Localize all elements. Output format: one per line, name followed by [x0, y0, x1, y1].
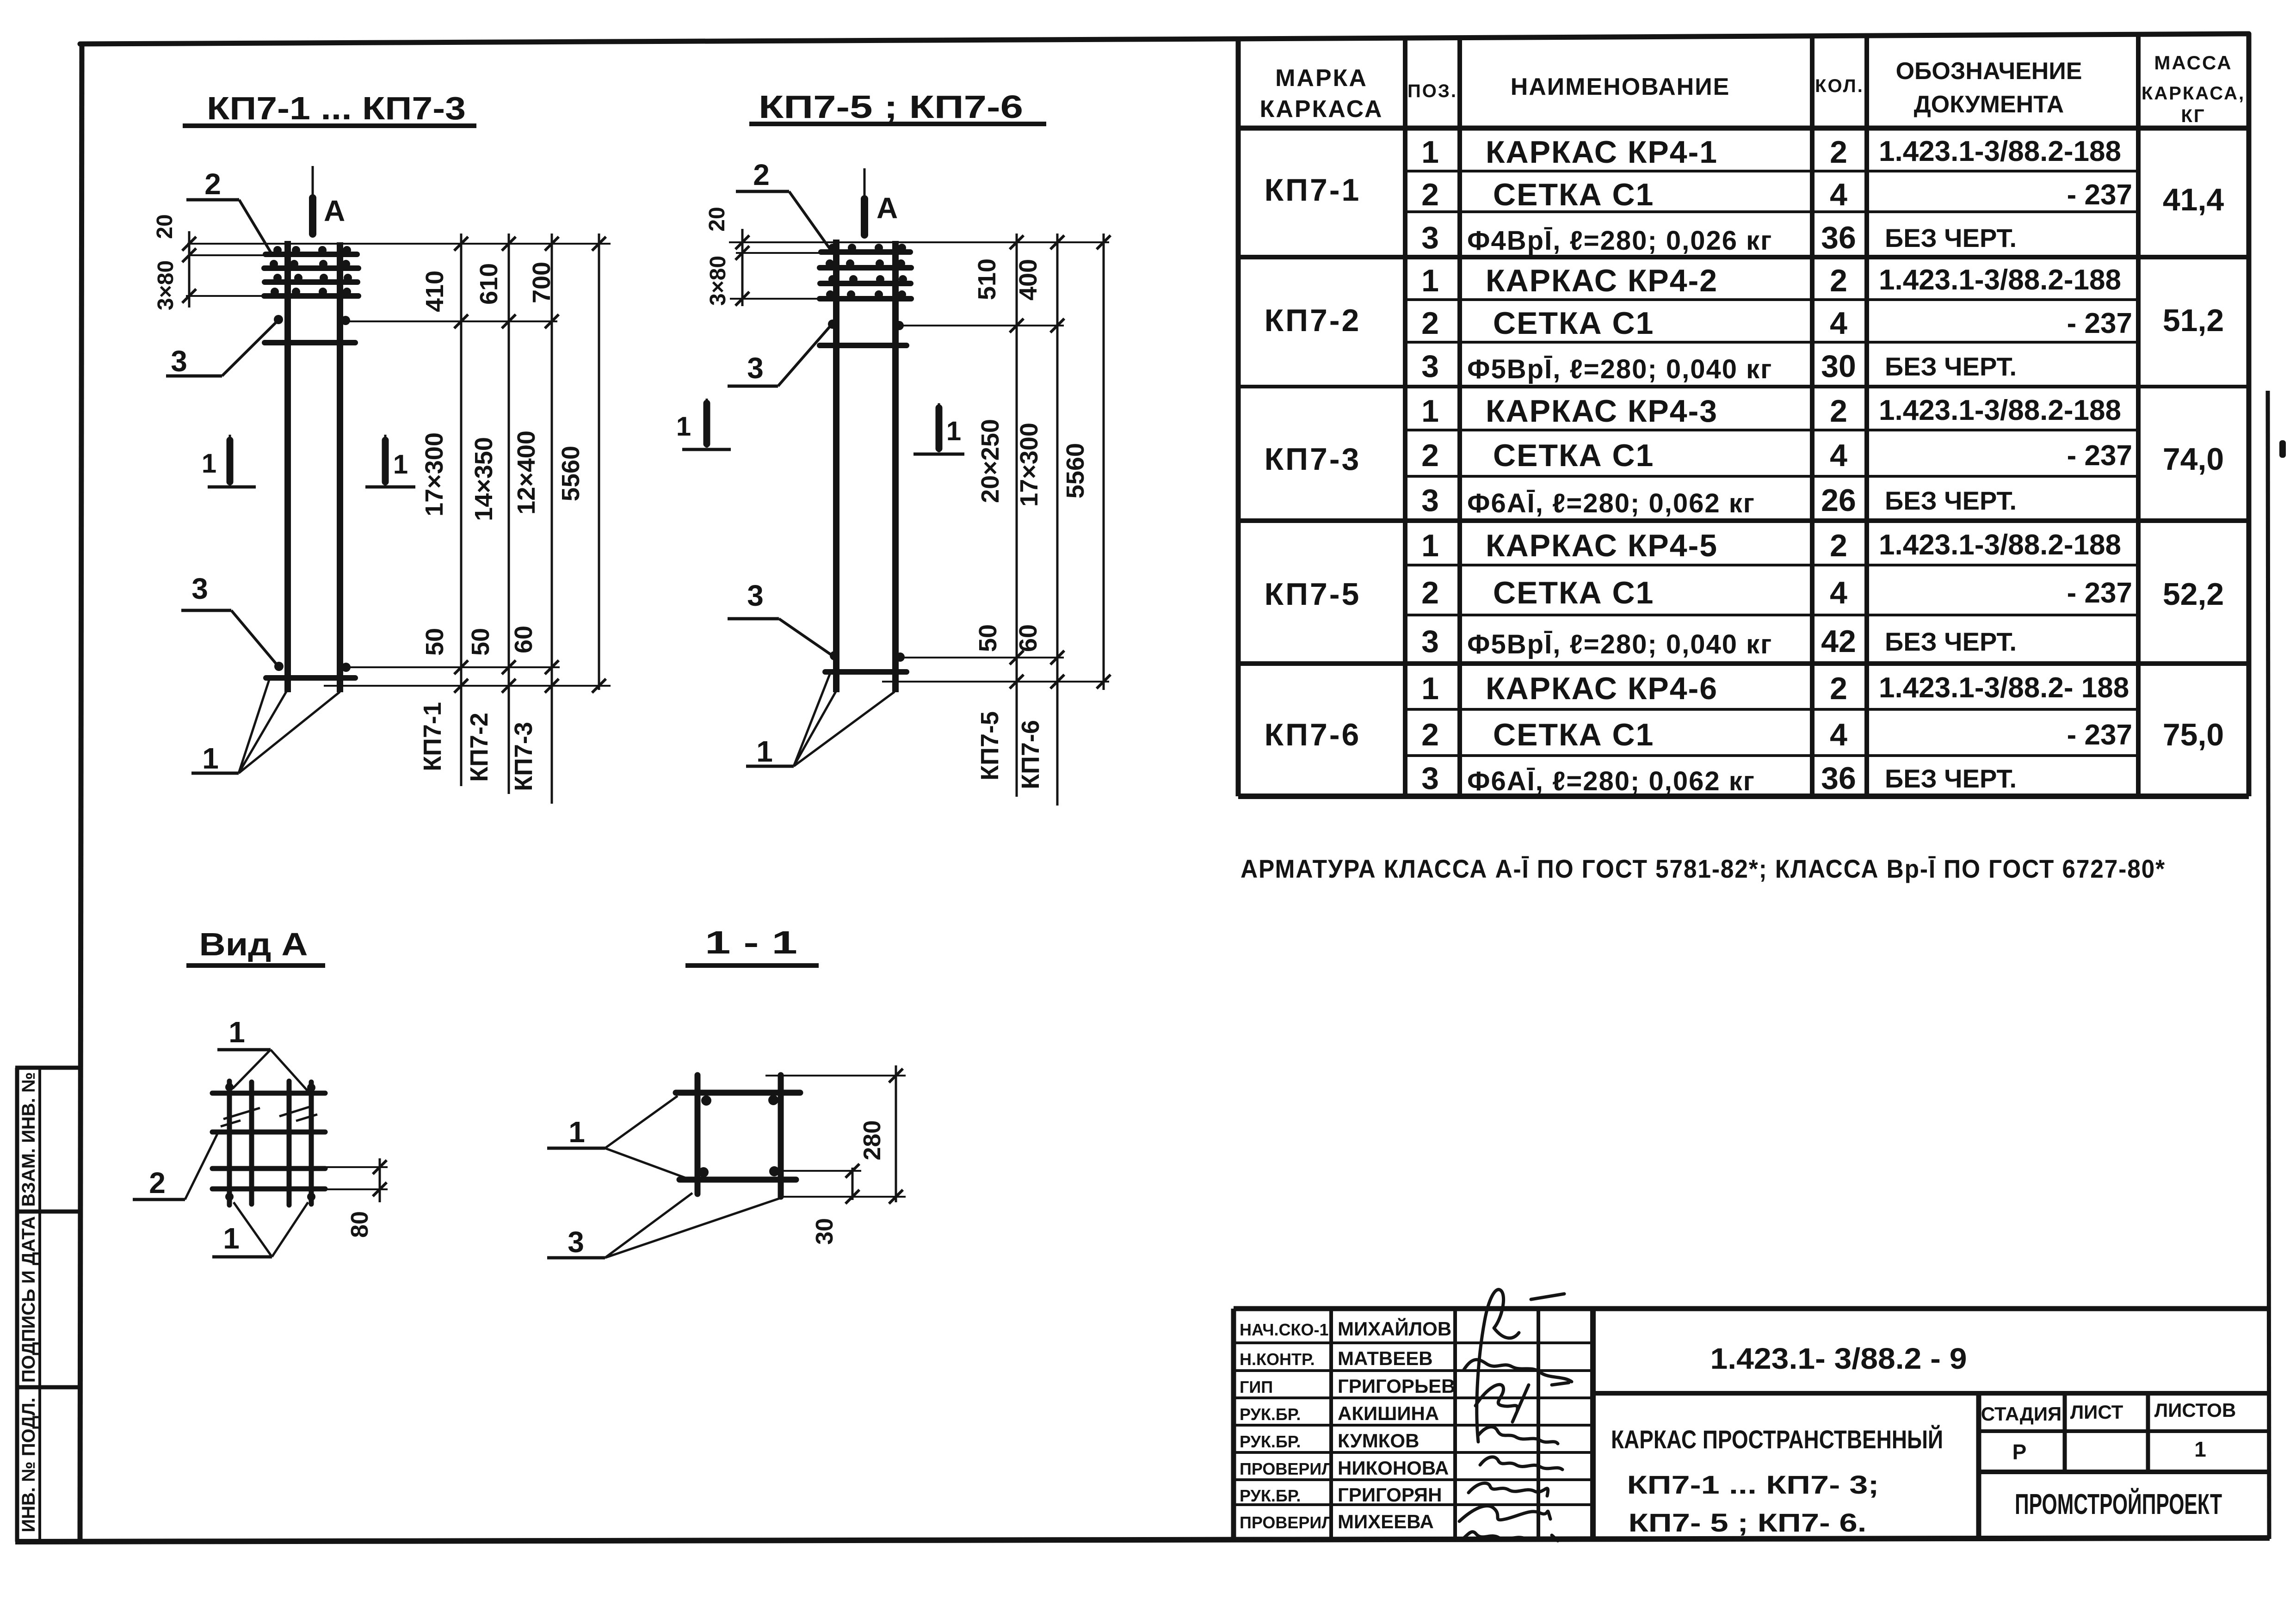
- svg-text:ДОКУМЕНТА: ДОКУМЕНТА: [1914, 91, 2064, 118]
- svg-text:50: 50: [467, 628, 494, 656]
- svg-text:51,2: 51,2: [2163, 303, 2224, 338]
- svg-text:14×350: 14×350: [470, 437, 498, 521]
- svg-text:410: 410: [421, 271, 449, 312]
- svg-text:2: 2: [204, 167, 221, 201]
- svg-text:ИНВ. № ПОДЛ.: ИНВ. № ПОДЛ.: [19, 1397, 39, 1532]
- svg-text:20: 20: [153, 214, 177, 239]
- svg-text:1: 1: [1421, 263, 1439, 298]
- svg-text:2: 2: [753, 158, 770, 191]
- svg-text:75,0: 75,0: [2163, 717, 2224, 752]
- svg-text:2: 2: [1830, 135, 1847, 170]
- svg-text:5560: 5560: [1062, 443, 1089, 498]
- svg-text:17×300: 17×300: [420, 432, 448, 517]
- svg-text:1: 1: [1421, 671, 1439, 706]
- svg-text:ПОДПИСЬ И ДАТА: ПОДПИСЬ И ДАТА: [19, 1216, 39, 1383]
- svg-text:50: 50: [974, 624, 1002, 652]
- svg-text:280: 280: [859, 1120, 886, 1161]
- svg-text:1: 1: [1421, 528, 1439, 563]
- svg-text:МАТВЕЕВ: МАТВЕЕВ: [1338, 1347, 1433, 1369]
- svg-text:50: 50: [421, 628, 449, 656]
- svg-text:КП7-2: КП7-2: [1265, 303, 1361, 338]
- svg-text:НАИМЕНОВАНИЕ: НАИМЕНОВАНИЕ: [1511, 74, 1730, 100]
- svg-text:26: 26: [1821, 483, 1856, 518]
- svg-text:СЕТКА С1: СЕТКА С1: [1493, 575, 1654, 610]
- svg-text:1: 1: [202, 742, 219, 775]
- svg-text:КП7-1 ... КП7- 3;: КП7-1 ... КП7- 3;: [1627, 1470, 1879, 1499]
- svg-text:КП7-3: КП7-3: [510, 722, 537, 791]
- svg-text:400: 400: [1014, 259, 1042, 301]
- svg-text:РУК.БР.: РУК.БР.: [1240, 1486, 1301, 1505]
- svg-text:ГРИГОРЬЕВ: ГРИГОРЬЕВ: [1338, 1375, 1455, 1397]
- svg-text:АРМАТУРА КЛАССА А-Ī ПО ГОСТ 57: АРМАТУРА КЛАССА А-Ī ПО ГОСТ 5781-82*; КЛ…: [1241, 854, 2166, 883]
- svg-text:КП7-2: КП7-2: [465, 713, 493, 782]
- svg-text:КАРКАС КР4-1: КАРКАС КР4-1: [1486, 135, 1718, 170]
- svg-text:1.423.1-3/88.2-188: 1.423.1-3/88.2-188: [1879, 394, 2121, 426]
- svg-text:1: 1: [946, 416, 961, 446]
- svg-text:3×80: 3×80: [706, 256, 730, 306]
- svg-text:2: 2: [1421, 306, 1439, 341]
- svg-text:НАЧ.СКО-1: НАЧ.СКО-1: [1240, 1320, 1329, 1339]
- svg-text:4: 4: [1830, 177, 1847, 212]
- svg-text:20×250: 20×250: [976, 419, 1004, 503]
- svg-text:КАРКАС ПРОСТРАНСТВЕННЫЙ: КАРКАС ПРОСТРАНСТВЕННЫЙ: [1611, 1425, 1943, 1454]
- svg-text:41,4: 41,4: [2163, 182, 2224, 217]
- svg-text:1: 1: [1421, 135, 1439, 170]
- svg-text:3: 3: [747, 351, 764, 385]
- svg-text:КП7-6: КП7-6: [1017, 720, 1044, 789]
- svg-text:КП7-3: КП7-3: [1265, 442, 1361, 477]
- svg-text:Ф5ВрĪ, ℓ=280; 0,040 кг: Ф5ВрĪ, ℓ=280; 0,040 кг: [1467, 629, 1772, 659]
- svg-text:4: 4: [1830, 717, 1847, 752]
- svg-text:700: 700: [528, 262, 555, 303]
- svg-text:42: 42: [1821, 624, 1856, 659]
- svg-text:2: 2: [1421, 438, 1439, 473]
- svg-text:Ф6АĪ, ℓ=280; 0,062 кг: Ф6АĪ, ℓ=280; 0,062 кг: [1467, 766, 1755, 796]
- svg-text:- 237: - 237: [2067, 179, 2132, 211]
- svg-text:3: 3: [191, 572, 208, 605]
- svg-text:3: 3: [1421, 624, 1439, 659]
- svg-text:Ф5ВрĪ, ℓ=280; 0,040 кг: Ф5ВрĪ, ℓ=280; 0,040 кг: [1467, 354, 1772, 384]
- svg-text:МИХАЙЛОВ: МИХАЙЛОВ: [1338, 1317, 1451, 1340]
- svg-text:ПРОМСТРОЙПРОЕКТ: ПРОМСТРОЙПРОЕКТ: [2015, 1488, 2222, 1520]
- svg-text:1.423.1- 3/88.2 - 9: 1.423.1- 3/88.2 - 9: [1710, 1342, 1967, 1375]
- svg-text:4: 4: [1830, 575, 1847, 610]
- svg-text:СТАДИЯ: СТАДИЯ: [1981, 1403, 2061, 1425]
- svg-text:3: 3: [1421, 349, 1439, 384]
- svg-text:1: 1: [223, 1222, 240, 1255]
- svg-text:1: 1: [1421, 394, 1439, 429]
- svg-text:2: 2: [1421, 575, 1439, 610]
- svg-text:1: 1: [676, 412, 691, 442]
- svg-text:52,2: 52,2: [2163, 577, 2224, 612]
- svg-text:А: А: [324, 194, 345, 228]
- svg-text:610: 610: [475, 263, 503, 305]
- svg-text:5560: 5560: [557, 446, 585, 501]
- svg-text:КГ: КГ: [2181, 106, 2205, 126]
- svg-text:30: 30: [811, 1218, 838, 1245]
- svg-text:36: 36: [1821, 220, 1856, 255]
- svg-text:КП7-5: КП7-5: [976, 711, 1004, 781]
- svg-text:СЕТКА С1: СЕТКА С1: [1493, 438, 1654, 473]
- svg-text:КП7-6: КП7-6: [1265, 717, 1361, 752]
- svg-text:3: 3: [1421, 761, 1439, 796]
- svg-text:3: 3: [1421, 483, 1439, 518]
- svg-text:30: 30: [1821, 349, 1856, 384]
- svg-text:СЕТКА С1: СЕТКА С1: [1493, 306, 1654, 341]
- svg-text:1.423.1-3/88.2- 188: 1.423.1-3/88.2- 188: [1879, 672, 2129, 704]
- svg-text:КП7- 5 ; КП7- 6.: КП7- 5 ; КП7- 6.: [1629, 1508, 1867, 1537]
- svg-text:ПОЗ.: ПОЗ.: [1407, 81, 1457, 101]
- svg-text:2: 2: [1421, 177, 1439, 212]
- svg-text:БЕЗ ЧЕРТ.: БЕЗ ЧЕРТ.: [1885, 764, 2017, 793]
- svg-text:3: 3: [747, 579, 764, 612]
- svg-text:КП7-5 ; КП7-6: КП7-5 ; КП7-6: [759, 89, 1023, 125]
- svg-text:1: 1: [2194, 1437, 2206, 1461]
- svg-text:А: А: [876, 191, 898, 225]
- svg-text:РУК.БР.: РУК.БР.: [1240, 1405, 1301, 1424]
- svg-text:1.423.1-3/88.2-188: 1.423.1-3/88.2-188: [1879, 264, 2121, 296]
- svg-text:АКИШИНА: АКИШИНА: [1338, 1403, 1439, 1424]
- svg-text:БЕЗ ЧЕРТ.: БЕЗ ЧЕРТ.: [1885, 486, 2017, 515]
- svg-text:Вид А: Вид А: [199, 926, 308, 962]
- svg-text:Р: Р: [2012, 1440, 2027, 1464]
- svg-text:БЕЗ ЧЕРТ.: БЕЗ ЧЕРТ.: [1885, 223, 2017, 252]
- svg-text:1: 1: [228, 1015, 245, 1049]
- svg-text:- 237: - 237: [2067, 719, 2132, 751]
- svg-text:2: 2: [1830, 671, 1847, 706]
- svg-text:БЕЗ ЧЕРТ.: БЕЗ ЧЕРТ.: [1885, 627, 2017, 656]
- svg-text:МИХЕЕВА: МИХЕЕВА: [1338, 1511, 1434, 1532]
- svg-text:ЛИСТОВ: ЛИСТОВ: [2154, 1399, 2236, 1421]
- svg-text:1.423.1-3/88.2-188: 1.423.1-3/88.2-188: [1879, 529, 2121, 561]
- svg-text:12×400: 12×400: [512, 431, 540, 515]
- svg-text:ПРОВЕРИЛ: ПРОВЕРИЛ: [1240, 1513, 1333, 1532]
- svg-text:БЕЗ ЧЕРТ.: БЕЗ ЧЕРТ.: [1885, 352, 2017, 381]
- svg-text:КП7-1 ... КП7-3: КП7-1 ... КП7-3: [207, 90, 466, 126]
- svg-text:60: 60: [510, 626, 537, 653]
- svg-text:СЕТКА С1: СЕТКА С1: [1493, 177, 1654, 212]
- svg-text:20: 20: [705, 207, 729, 231]
- svg-text:80: 80: [346, 1211, 373, 1238]
- svg-text:КП7-1: КП7-1: [1265, 172, 1361, 208]
- svg-text:ЛИСТ: ЛИСТ: [2070, 1401, 2123, 1423]
- svg-text:КУМКОВ: КУМКОВ: [1338, 1430, 1419, 1452]
- svg-text:КАРКАС КР4-2: КАРКАС КР4-2: [1486, 263, 1718, 298]
- svg-text:КАРКАС КР4-3: КАРКАС КР4-3: [1486, 394, 1718, 429]
- svg-text:510: 510: [973, 258, 1001, 300]
- svg-text:КП7-1: КП7-1: [419, 702, 446, 771]
- svg-text:3×80: 3×80: [154, 260, 178, 310]
- svg-text:КАРКАС КР4-5: КАРКАС КР4-5: [1486, 528, 1718, 563]
- svg-text:МАССА: МАССА: [2154, 52, 2232, 74]
- svg-text:36: 36: [1821, 761, 1856, 796]
- svg-text:2: 2: [1830, 528, 1847, 563]
- svg-text:КАРКАСА: КАРКАСА: [1260, 96, 1383, 123]
- svg-text:4: 4: [1830, 306, 1847, 341]
- svg-text:1.423.1-3/88.2-188: 1.423.1-3/88.2-188: [1879, 135, 2121, 167]
- svg-text:4: 4: [1830, 438, 1847, 473]
- svg-text:2: 2: [149, 1166, 166, 1200]
- svg-text:ГРИГОРЯН: ГРИГОРЯН: [1338, 1484, 1442, 1506]
- svg-text:СЕТКА С1: СЕТКА С1: [1493, 717, 1654, 752]
- svg-text:1: 1: [393, 449, 408, 480]
- svg-text:КАРКАС КР4-6: КАРКАС КР4-6: [1486, 671, 1718, 706]
- svg-text:ОБОЗНАЧЕНИЕ: ОБОЗНАЧЕНИЕ: [1896, 58, 2082, 85]
- svg-text:1: 1: [568, 1115, 585, 1149]
- svg-text:3: 3: [568, 1225, 584, 1259]
- svg-text:КАРКАСА,: КАРКАСА,: [2142, 83, 2245, 104]
- svg-text:КП7-5: КП7-5: [1265, 577, 1361, 612]
- svg-text:МАРКА: МАРКА: [1275, 65, 1368, 92]
- svg-text:Ф4ВрĪ, ℓ=280; 0,026 кг: Ф4ВрĪ, ℓ=280; 0,026 кг: [1467, 226, 1772, 256]
- svg-text:1: 1: [202, 449, 216, 479]
- svg-text:2: 2: [1421, 717, 1439, 752]
- svg-text:17×300: 17×300: [1015, 423, 1043, 507]
- svg-text:ПРОВЕРИЛ: ПРОВЕРИЛ: [1240, 1459, 1333, 1478]
- svg-text:2: 2: [1830, 394, 1847, 429]
- svg-text:- 237: - 237: [2067, 440, 2132, 472]
- svg-text:НИКОНОВА: НИКОНОВА: [1338, 1457, 1449, 1479]
- svg-text:- 237: - 237: [2067, 577, 2132, 609]
- svg-text:ГИП: ГИП: [1240, 1378, 1273, 1396]
- svg-text:КОЛ.: КОЛ.: [1815, 76, 1864, 96]
- svg-text:1: 1: [756, 735, 773, 768]
- svg-text:3: 3: [171, 344, 187, 378]
- svg-text:ВЗАМ. ИНВ. №: ВЗАМ. ИНВ. №: [19, 1072, 39, 1206]
- svg-text:60: 60: [1014, 624, 1042, 652]
- svg-text:РУК.БР.: РУК.БР.: [1240, 1432, 1301, 1451]
- svg-text:Н.КОНТР.: Н.КОНТР.: [1240, 1350, 1315, 1369]
- svg-text:2: 2: [1830, 263, 1847, 298]
- svg-text:74,0: 74,0: [2163, 442, 2224, 477]
- svg-text:3: 3: [1421, 220, 1439, 255]
- svg-text:1 - 1: 1 - 1: [705, 924, 797, 960]
- svg-text:- 237: - 237: [2067, 308, 2132, 339]
- svg-text:Ф6АĪ, ℓ=280; 0,062 кг: Ф6АĪ, ℓ=280; 0,062 кг: [1467, 488, 1755, 518]
